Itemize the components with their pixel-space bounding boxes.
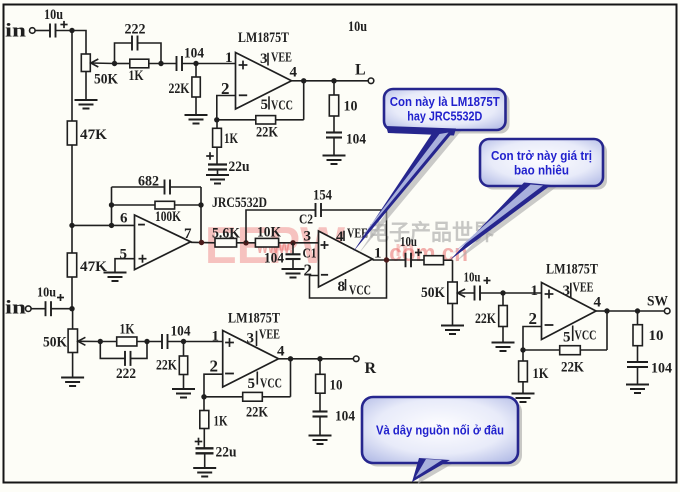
node [199,240,204,245]
node [158,61,163,66]
ground SW out [626,385,649,394]
ground pin5 U2A [104,273,127,282]
capacitor 22u (L) [206,152,214,160]
pin 3 VEE U4 [256,331,258,346]
svg-text:22u: 22u [229,159,250,175]
pin 5 VCC U1 [268,96,270,109]
svg-text:VCC: VCC [271,99,293,114]
feedback wire U3 [606,311,608,350]
svg-text:22K: 22K [256,125,278,141]
terminal in-L [30,28,36,34]
node L out [331,78,336,83]
callout 2 (Con tr&#7903; n&#224;y gi&#225; tr&#7883;) box [480,139,603,186]
ground pot L [75,100,98,109]
wire [149,63,176,65]
resistor 47K upper [71,31,73,122]
resistor 22K pulldown (R) [183,342,185,357]
callout 2 (Con tr&#7903; n&#224;y gi&#225; tr&#7883;) tail [450,183,551,261]
svg-text:LM1875T: LM1875T [546,262,598,278]
node B filter [290,240,295,245]
node [500,290,505,295]
feedback wire U4 [290,359,292,397]
svg-text:5.6K: 5.6K [212,226,240,242]
resistor 5.6K [215,238,237,247]
svg-text:L: L [355,62,366,79]
pin 5 VCC U4 [256,372,258,385]
svg-text:JRC5532D: JRC5532D [212,195,267,211]
callout 2 (Con tr&#7903; n&#224;y gi&#225; tr&#7883;) shadow [484,143,607,190]
svg-text:LM1875T: LM1875T [228,311,280,327]
svg-text:22K: 22K [156,358,177,374]
svg-text:154: 154 [313,188,332,204]
svg-text:5: 5 [248,376,256,392]
callout 1 (Con n&#224;y l&#224; LM1875T) tail [386,126,456,136]
feedback wire U1 [303,81,305,120]
terminal SW [664,308,670,314]
svg-text:22u: 22u [216,445,237,461]
wire [168,341,223,343]
capacitor 104 plates [177,56,183,71]
node [214,117,219,122]
capacitor 222 (L) loop [115,43,132,64]
resistor 1K (L) [115,63,130,65]
svg-text:VCC: VCC [575,329,597,344]
svg-text:1K: 1K [533,366,549,382]
wire [72,353,74,378]
svg-text:C2: C2 [299,213,313,228]
ground 22K R [172,389,195,398]
svg-text:Và dây nguồn nối ở đâu: Và dây nguồn nối ở đâu [376,423,504,438]
wire [56,30,73,32]
ground 22K L [185,115,208,124]
svg-text:3: 3 [304,229,312,245]
node A filter [243,240,248,245]
node [181,339,186,344]
svg-text:VEE: VEE [573,281,594,296]
capacitor 682 feedback loop [112,186,165,188]
svg-text:4: 4 [290,65,298,81]
ground 22K SW [492,343,515,352]
svg-text:bao nhiêu: bao nhiêu [514,162,569,177]
svg-text:104: 104 [335,409,355,425]
resistor 1K to 22u (L) [216,120,218,129]
wire [182,63,236,65]
pin 6 U2A [72,224,135,226]
svg-text:VEE: VEE [347,227,368,242]
terminal R [353,356,359,362]
wire [481,292,542,294]
svg-text:22K: 22K [561,360,584,376]
svg-text:222: 222 [116,366,136,382]
ground pot R [61,378,84,387]
resistor 22K pulldown (L) [195,64,197,78]
node SW out [635,308,640,313]
wire [85,72,87,101]
svg-text:in: in [5,298,27,319]
svg-text:3: 3 [247,331,255,347]
svg-text:10u: 10u [348,19,367,35]
svg-text:1: 1 [225,50,233,66]
pin 5 VCC U3 [572,326,574,342]
svg-text:SW: SW [647,294,668,310]
svg-text:2: 2 [210,357,219,376]
wire wiper L [91,62,115,65]
svg-text:3: 3 [260,51,268,67]
ground pot SW [441,326,464,335]
capacitor C1 104 [292,243,294,255]
potentiometer 50K (R) [68,329,77,353]
svg-text:VCC: VCC [349,284,371,299]
svg-text:3: 3 [563,283,571,299]
svg-text:Con trở này giá trị: Con trở này giá trị [491,148,592,163]
svg-text:VCC: VCC [260,377,282,392]
wire [51,308,72,310]
capacitor 104 plates R [162,334,168,349]
svg-text:50K: 50K [94,72,118,88]
svg-text:682: 682 [138,174,159,190]
capacitor 222 (R) loop [100,342,124,359]
callout 1 (Con n&#224;y l&#224; LM1875T) shadow [388,93,510,134]
svg-text:104: 104 [184,46,204,62]
svg-text:104: 104 [651,361,672,377]
wire [35,30,49,32]
capacitor 222 plates R [125,351,131,366]
svg-text:50K: 50K [421,285,445,301]
resistor 10 output SW [637,311,639,325]
capacitor 10u plates SW [406,253,412,268]
svg-text:10K: 10K [257,225,281,241]
node mix [69,223,74,228]
node [201,394,206,399]
wire [452,304,454,326]
resistor 1K U3 [522,350,524,361]
callout 1 (Con n&#224;y l&#224; LM1875T) box [384,89,506,130]
svg-text:1K: 1K [120,322,135,338]
svg-text:2: 2 [304,261,313,280]
svg-text:5: 5 [261,97,269,113]
wire [72,309,74,329]
resistor 100K feedback U2A [112,204,156,206]
svg-text:100K: 100K [155,209,181,225]
svg-text:6: 6 [120,211,128,227]
resistor 10 output R [319,359,321,375]
wire [137,341,162,343]
ground 1K SW [512,394,535,403]
svg-text:10: 10 [330,378,343,394]
resistor 1K to 22u (R) [203,397,205,411]
node U2B out [384,257,389,262]
pin 3 VEE U3 [570,283,572,298]
svg-text:7: 7 [184,226,192,242]
capacitor 682 plates [165,180,171,195]
op-amp U2B JRC5532D [319,231,373,287]
svg-text:1: 1 [374,246,382,262]
svg-text:VEE: VEE [271,51,292,66]
svg-text:in: in [5,21,27,42]
svg-text:4: 4 [277,344,285,360]
ground 22u R [193,468,216,477]
capacitor 154 plates [316,203,322,217]
svg-text:hay JRC5532D: hay JRC5532D [407,108,482,123]
wire [334,80,368,82]
resistor 22K feedback U1 [276,119,304,121]
ground C1 [282,269,305,278]
wire [279,242,319,244]
svg-text:10: 10 [344,99,358,115]
node [520,347,525,352]
capacitor 10u plates [50,24,56,38]
svg-text:1K: 1K [214,414,228,430]
svg-text:222: 222 [125,22,146,38]
svg-text:50K: 50K [43,335,67,351]
svg-text:C1: C1 [303,247,317,262]
wire output U4 [279,358,291,360]
node wiper-L junction [112,61,117,66]
svg-text:4: 4 [336,229,344,245]
wire [31,308,45,310]
svg-text:LM1875T: LM1875T [238,30,289,46]
terminal L [368,78,374,84]
wire [71,145,73,225]
svg-text:47K: 47K [80,259,107,275]
resistor 22K pulldown SW [502,293,504,306]
svg-text:1K: 1K [224,131,238,147]
wire [111,187,113,225]
capacitor 104 plates L out [326,133,342,138]
ground L out [323,156,346,165]
svg-text:10: 10 [649,328,664,344]
svg-text:1: 1 [212,329,220,345]
svg-text:10u: 10u [44,7,63,23]
capacitor 104 plates SW out [627,362,648,367]
terminal in-R [26,306,32,312]
potentiometer 50K (L) [81,54,90,72]
svg-text:4: 4 [594,295,602,311]
node L-in junction [69,28,74,33]
resistor 1K (R) [100,341,116,343]
node R out [317,356,322,361]
capacitor 222 plates [132,36,138,51]
svg-text:R: R [365,360,377,377]
resistor unknown (callout target) [424,256,444,265]
callout 3 (V&#224; d&#226;y ngu&#7891;n) box [362,397,518,463]
svg-text:47K: 47K [80,127,107,143]
svg-text:VEE: VEE [259,328,280,343]
svg-text:Con này là LM1875T: Con này là LM1875T [390,94,500,109]
node [193,61,198,66]
resistor 47K lower [71,225,73,253]
svg-text:10u: 10u [37,286,56,301]
capacitor 10u plates R [46,301,52,316]
resistor 10K [255,238,278,247]
svg-text:5: 5 [120,247,128,263]
wire output U3 [596,310,607,312]
svg-text:22K: 22K [246,405,268,421]
svg-text:10u: 10u [464,271,481,286]
ground R out [309,436,332,445]
capacitor 22u (R) [195,438,203,446]
wire wiper SW [458,292,474,294]
svg-text:1K: 1K [129,68,144,84]
resistor 10 output L [333,81,335,95]
svg-text:104: 104 [171,324,191,340]
wire output U1 [292,80,304,82]
potentiometer 50K (SW) [448,282,457,304]
resistor 22K feedback U3 [580,349,607,351]
resistor 22K feedback U4 [262,396,290,398]
node wiper-R junction [98,339,103,344]
svg-text:5: 5 [563,330,571,346]
wire output U2B [373,259,406,261]
svg-text:10u: 10u [400,235,417,250]
wire [237,242,256,244]
svg-text:2: 2 [529,309,538,328]
capacitor C2 154 loop [246,210,315,243]
svg-text:104: 104 [346,132,366,148]
pin 3 VEE U1 [267,53,269,66]
svg-text:22K: 22K [169,81,190,97]
wire wiper R [78,340,100,342]
wire [71,277,73,309]
ground 22u L [206,175,229,184]
pin 8 VCC U2B [345,279,347,291]
callout 3 (V&#224; d&#226;y ngu&#7891;n) shadow [366,401,522,467]
pin 4 VEE U2B [343,231,345,241]
node [144,339,149,344]
svg-text:1: 1 [531,283,539,299]
capacitor 10u plates SW2 [475,286,481,301]
callout 3 (V&#224; d&#226;y ngu&#7891;n) tail [412,458,450,482]
svg-text:22K: 22K [475,311,496,327]
svg-text:8: 8 [338,279,346,295]
capacitor 104 plates R out [313,412,328,417]
wire [72,31,86,55]
node R-in junction [69,306,74,311]
svg-text:104: 104 [264,251,284,267]
